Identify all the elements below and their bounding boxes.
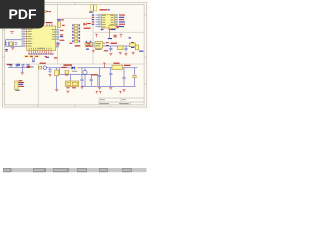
svg-text:PDF: PDF — [9, 6, 37, 22]
